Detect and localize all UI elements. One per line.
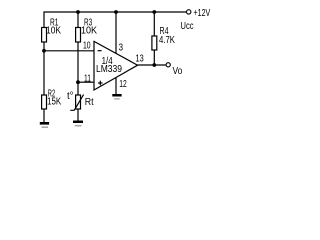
op-amp plus input mark (98, 81, 103, 86)
ground (pin 12) (112, 94, 121, 100)
op-amp minus input mark (98, 50, 102, 52)
wire column D top lead (153, 12, 155, 36)
svg-text:10: 10 (83, 41, 91, 52)
svg-text:Vo: Vo (173, 66, 183, 77)
svg-text:Ucc: Ucc (181, 21, 194, 32)
wire column B top lead (77, 12, 79, 28)
wire column A bottom lead (43, 109, 45, 122)
thermistor Rt strike (70, 95, 83, 111)
node dot rail-R3 (76, 10, 80, 14)
wire pin 3 supply lead (115, 12, 117, 54)
wire column B bottom lead (77, 109, 79, 121)
svg-text:LM339: LM339 (96, 64, 122, 75)
wire column A middle (43, 42, 45, 95)
svg-text:3: 3 (119, 43, 124, 54)
terminal Vo (166, 63, 170, 67)
wire column B middle (R3 to Rt) (77, 42, 79, 95)
svg-text:11: 11 (84, 74, 91, 85)
terminal +12V (187, 10, 191, 14)
svg-text:4.7K: 4.7K (159, 35, 175, 46)
svg-text:t°: t° (67, 91, 74, 102)
op-amp U1 1/4 LM339 (94, 41, 138, 90)
node Y dot (R3/Rt divider) (76, 80, 80, 84)
ground (column A) (40, 122, 49, 128)
svg-text:Rt: Rt (85, 97, 94, 108)
ground (thermistor) (73, 121, 83, 127)
node dot rail-pin3 (114, 10, 118, 14)
svg-text:10K: 10K (46, 25, 61, 36)
svg-text:12: 12 (119, 79, 127, 90)
wire column A top lead (43, 12, 45, 28)
node dot rail-R4 (152, 10, 156, 14)
svg-text:10K: 10K (81, 26, 97, 37)
thermistor Rt body (76, 95, 81, 109)
svg-text:15K: 15K (47, 97, 61, 108)
node dot output-R4 (152, 63, 156, 67)
svg-text:+12V: +12V (194, 8, 211, 19)
wire node X to pin 10 (44, 50, 94, 52)
wire pin 12 ground lead (115, 77, 117, 94)
svg-text:13: 13 (136, 54, 145, 65)
resistor R3 (76, 28, 81, 43)
wire top supply rail (44, 11, 187, 13)
wire node Y to pin 11 (78, 81, 94, 83)
resistor R4 (152, 36, 157, 50)
wire output pin 13 (138, 64, 166, 66)
resistor R1 (42, 28, 47, 43)
resistor R2 (42, 95, 47, 109)
wire column D bottom lead (153, 50, 155, 65)
node X dot (R1/R2 divider) (42, 49, 46, 53)
